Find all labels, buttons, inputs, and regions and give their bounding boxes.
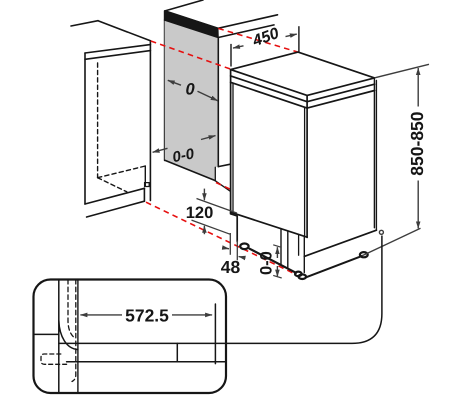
niche right wall plinth endcap bbox=[145, 183, 150, 187]
dim 572.5 right arrow segment bbox=[172, 314, 212, 316]
svg-text:850-850: 850-850 bbox=[407, 111, 427, 175]
niche side panel gray fill bbox=[165, 20, 219, 181]
wall foot bottom edge bbox=[215, 181, 230, 192]
countertop right section band bottom edge bbox=[218, 25, 274, 38]
dim 572.5 left arrow segment bbox=[80, 314, 122, 316]
red alignment line: counter corner to DW top-back corner bbox=[218, 28, 297, 52]
panel right vertical edge bbox=[217, 38, 219, 167]
left cabinet countertop back edge bbox=[71, 21, 98, 26]
section horizontal H1 bbox=[59, 342, 226, 344]
dim 48 left arrow bbox=[223, 248, 230, 249]
dishwasher base left step bbox=[231, 214, 238, 242]
dim 450 left arrow bbox=[233, 46, 244, 48]
dishwasher right rear vertical edge bbox=[373, 78, 375, 228]
dishwasher worktop lower seam (right face) bbox=[307, 91, 374, 109]
dishwasher worktop lower seam (front face) bbox=[231, 82, 308, 108]
dim 120 bottom tick bbox=[192, 220, 231, 234]
dim 0-0 feet bottom tick bbox=[273, 275, 282, 278]
dim 48 right arrow bbox=[239, 257, 244, 258]
dim 120 top tick bbox=[197, 199, 238, 214]
svg-text:572.5: 572.5 bbox=[125, 305, 169, 325]
left cabinet hidden floor back edge (dashed) bbox=[98, 166, 146, 178]
dishwasher right rear outer vertical edge bbox=[375, 81, 377, 231]
dim 0 arrow right segment bbox=[198, 91, 218, 100]
svg-text:0-0: 0-0 bbox=[258, 251, 276, 275]
section door bottom corner arc bbox=[59, 321, 78, 350]
red alignment line: wall foot to DW base bbox=[216, 183, 230, 190]
leader node circle bbox=[379, 230, 383, 234]
section divider bbox=[176, 343, 178, 361]
dim 48 tick 2 bbox=[236, 241, 238, 261]
left cabinet plinth right end vertical bbox=[143, 188, 145, 201]
svg-text:120: 120 bbox=[186, 204, 214, 222]
section horizontal H2 bbox=[67, 361, 226, 363]
dishwasher front corner vertical edge bbox=[306, 95, 308, 237]
countertop over niche front top edge bbox=[165, 11, 218, 28]
dishwasher base corner vertical below door bbox=[303, 237, 305, 272]
countertop right section top edge bbox=[218, 15, 278, 28]
dishwasher kick plate left vertical bbox=[280, 229, 282, 265]
section counter shelf line bbox=[34, 333, 59, 335]
dishwasher base right edge d1 bbox=[304, 230, 376, 256]
dim 450 right arrow bbox=[286, 34, 297, 37]
dim 120 vertical bottom arrow bbox=[203, 226, 205, 234]
dishwasher top slab band bottom edge (right face) bbox=[307, 84, 374, 102]
panel top edge bbox=[165, 20, 219, 38]
dim 0-0 feet top tick bbox=[273, 245, 282, 248]
dim 450 left tick bbox=[230, 44, 232, 67]
dishwasher door left inner edge bbox=[232, 83, 234, 213]
dim 0-0 arrow left segment bbox=[153, 148, 168, 152]
section right tick bbox=[214, 304, 216, 364]
left cabinet plinth bottom edge bbox=[87, 201, 145, 217]
dishwasher kick plate right vertical bbox=[287, 231, 289, 268]
right rear foot bbox=[360, 252, 368, 257]
dim 0-0 feet vertical bottom arrow bbox=[276, 266, 278, 277]
section niche wall vertical bbox=[58, 280, 60, 393]
dishwasher door right inner edge bbox=[304, 107, 306, 236]
dishwasher front-left vertical edge bbox=[230, 70, 232, 214]
dim 850-850 line bottom segment bbox=[417, 181, 419, 229]
wall foot top edge bbox=[218, 164, 230, 166]
left cabinet hidden inner vertical (dashed) bbox=[97, 63, 99, 178]
leader line from bubble to foot node bbox=[226, 236, 382, 344]
dishwasher kick plate inner vertical bbox=[298, 235, 300, 256]
section front panel vertical bbox=[77, 280, 79, 393]
svg-text:48: 48 bbox=[221, 257, 241, 277]
front-left foot bbox=[240, 244, 248, 250]
countertop band over niche (dark fill) bbox=[165, 11, 219, 38]
section door hidden dashed edge 2 bbox=[72, 280, 76, 382]
dim 48 tick 1 bbox=[229, 233, 231, 255]
wall foot inner vertical bbox=[214, 167, 216, 181]
dim 120 vertical top arrow bbox=[203, 189, 205, 201]
left cabinet countertop front top edge bbox=[98, 21, 150, 41]
niche left vertical edge bbox=[149, 41, 151, 201]
countertop over niche back edge bbox=[165, 0, 203, 11]
dim 450 right tick bbox=[298, 26, 300, 52]
bubble outline bbox=[34, 280, 227, 394]
front foot bbox=[295, 272, 302, 277]
left cabinet front-left vertical edge bbox=[84, 53, 86, 204]
dim 850-850 line top segment bbox=[417, 68, 419, 107]
dishwasher top face outline bbox=[231, 52, 375, 95]
niche back-right corner vertical bbox=[144, 166, 146, 186]
section door hidden dashed edge 1 bbox=[68, 280, 75, 339]
svg-text:0: 0 bbox=[186, 81, 196, 99]
dim 850-850 bottom tick bbox=[362, 228, 421, 256]
dashed hinge hook bbox=[41, 354, 67, 364]
left cabinet countertop band top edge bbox=[85, 45, 150, 53]
dim 0 arrow left segment bbox=[168, 80, 181, 85]
left cabinet hidden floor front edge (dashed) bbox=[98, 178, 127, 192]
red alignment line: niche counter corner to DW top-left corner bbox=[151, 41, 230, 69]
dim 850-850 top tick bbox=[375, 64, 429, 78]
panel bottom edge bbox=[165, 160, 216, 180]
dim 0-0 arrow right segment bbox=[201, 136, 216, 140]
dishwasher ground line left foot to front foot bbox=[250, 249, 297, 273]
dim 0-0 feet vertical top arrow bbox=[276, 247, 278, 258]
countertop over niche left vertical / panel left edge bbox=[164, 11, 166, 161]
dishwasher door bottom seam bbox=[231, 212, 308, 237]
left cabinet countertop band bottom edge bbox=[85, 51, 150, 60]
red alignment line: niche floor to DW front foot bbox=[146, 202, 296, 274]
left cabinet plinth top edge bbox=[85, 188, 144, 204]
dishwasher top slab band bottom edge (front face) bbox=[231, 76, 308, 102]
dishwasher ground line front foot to rear foot bbox=[306, 256, 362, 277]
